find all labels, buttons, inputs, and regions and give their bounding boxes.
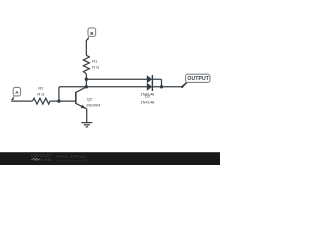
node junction dot collector <box>85 85 88 88</box>
svg-text:http://circuitlab.com/c/449yf5: http://circuitlab.com/c/449yf5 <box>57 158 90 162</box>
svg-text:LAB: LAB <box>42 157 52 162</box>
footer CircuitLab logo <box>31 153 52 162</box>
diode D2 <box>147 83 153 91</box>
OUTPUT flag <box>181 74 210 88</box>
wire collector line to D2 anode <box>86 86 147 88</box>
resistor R1 <box>83 55 89 74</box>
resistor R2 <box>32 98 50 104</box>
svg-text:2N3904: 2N3904 <box>86 103 101 108</box>
svg-text:1N4148: 1N4148 <box>140 91 155 96</box>
svg-text:R1: R1 <box>92 58 98 63</box>
node junction dot output <box>160 85 163 88</box>
svg-text:R Ω: R Ω <box>92 64 99 69</box>
node junction dot at R1 bottom <box>85 78 88 81</box>
svg-text:thelink : XOR gate: thelink : XOR gate <box>57 154 86 158</box>
wire R1 bottom lead <box>85 74 87 79</box>
diode D1 <box>147 75 153 83</box>
wire D1 cathode to output node <box>152 79 161 87</box>
svg-text:1N4148: 1N4148 <box>140 100 155 105</box>
terminal A <box>11 87 21 100</box>
svg-text:R2: R2 <box>38 86 44 91</box>
terminal B <box>86 28 96 40</box>
wire R2 to base <box>50 100 76 102</box>
svg-text:OUTPUT: OUTPUT <box>187 76 209 82</box>
footer bar <box>0 152 220 165</box>
svg-text:R Ω: R Ω <box>37 92 44 97</box>
wire D2 cathode to OUTPUT flag <box>152 86 182 88</box>
svg-text:Q2: Q2 <box>87 97 93 102</box>
wire node to diode D1 anode <box>86 78 147 80</box>
transistor Q2 <box>76 87 87 123</box>
node junction dot base <box>57 99 60 102</box>
wire vertical between nodes <box>85 79 87 87</box>
wire B to R1 <box>85 40 87 56</box>
wire collector-base feedback <box>59 87 86 101</box>
ground <box>81 123 92 127</box>
wire A to R2 <box>11 100 32 102</box>
